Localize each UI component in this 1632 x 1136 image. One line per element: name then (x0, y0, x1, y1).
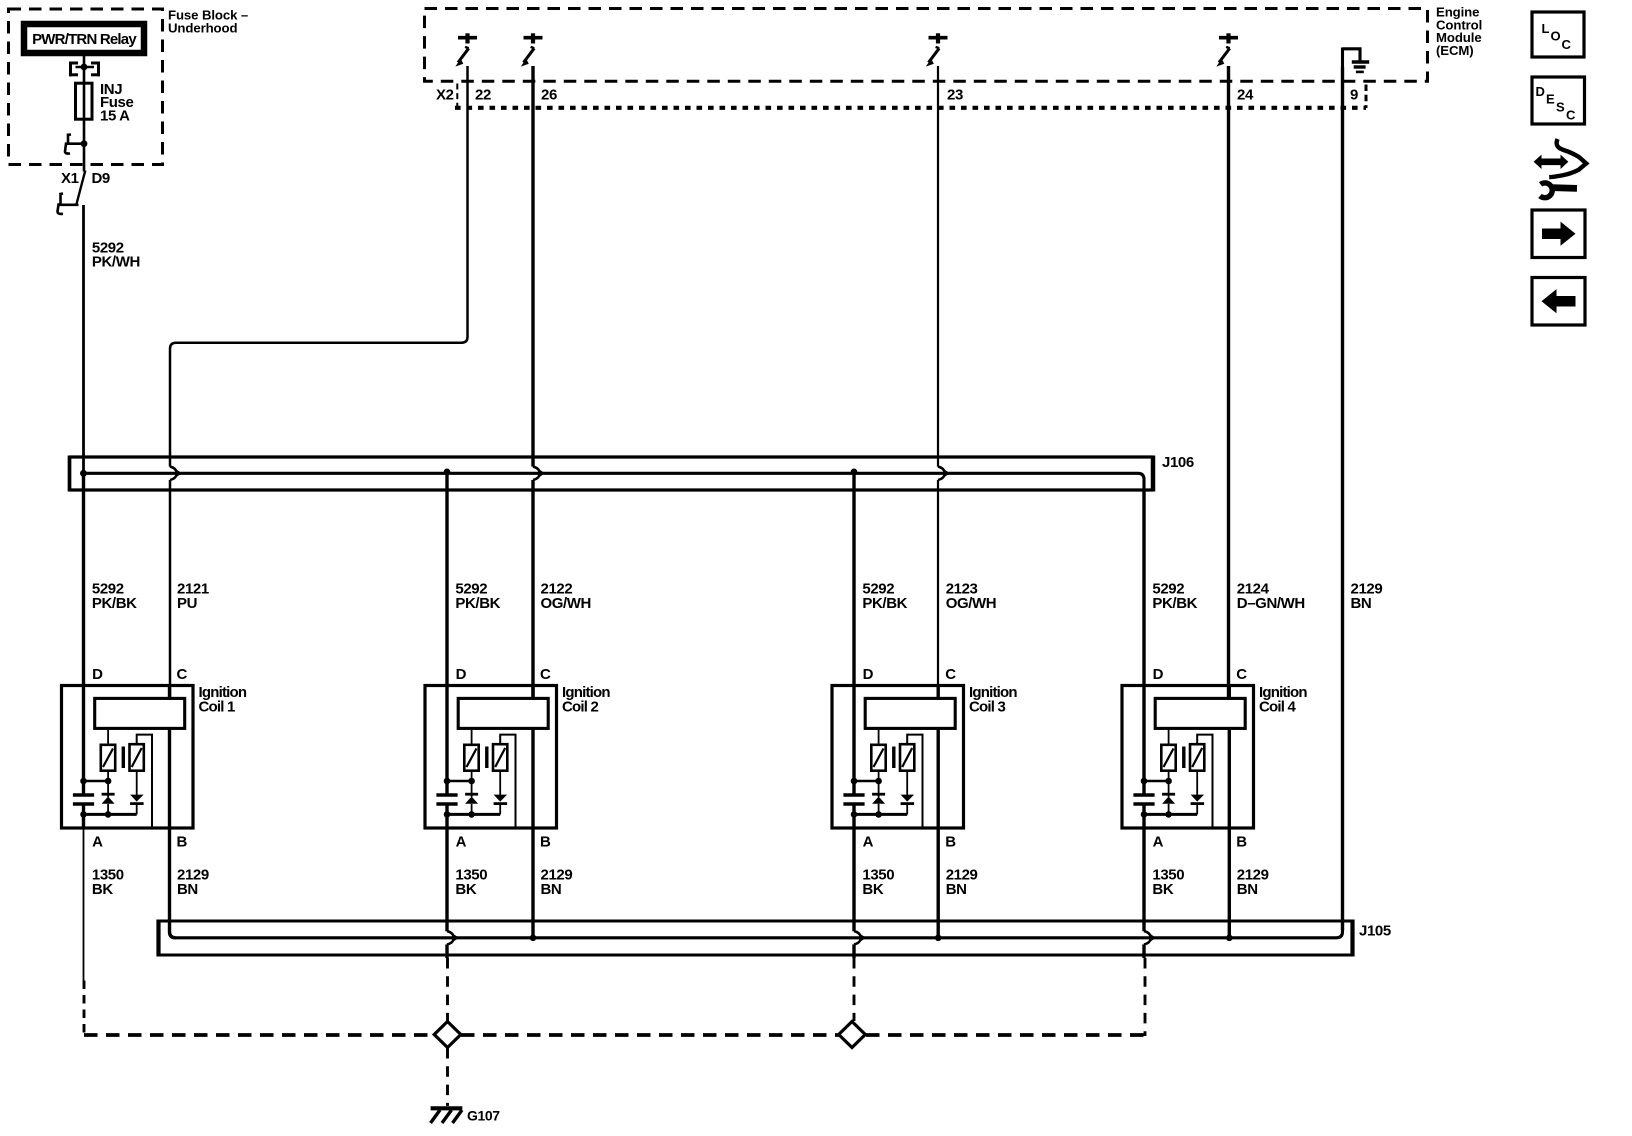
svg-text:D: D (863, 666, 874, 683)
ECM driver (switch) pin 23 (926, 33, 948, 66)
ECM driver (switch) pin 24 (1216, 33, 1238, 66)
wire 1350 BK coil 3 A to J105 (852, 829, 855, 958)
ECM connector row: pin 9 separator (1365, 85, 1368, 109)
svg-text:PU: PU (177, 595, 197, 612)
relay K (PWR/TRN Relay) (24, 24, 144, 53)
coil 2 pin B label (540, 833, 551, 850)
coil 2 resistor 2 (493, 735, 516, 827)
svg-text:BN: BN (1237, 881, 1258, 898)
coil 1 resistor 1 (101, 728, 115, 770)
dashed ground bus horizontal 3 (866, 1033, 1145, 1037)
coil 2 pin A label (456, 833, 467, 850)
toolbar next (right arrow) button (1532, 210, 1585, 258)
J105 pass-through arrow at coil4 A (1144, 931, 1156, 945)
coil 3 D-A internal wire (852, 685, 855, 794)
svg-text:Underhood: Underhood (168, 20, 237, 35)
dashed ground wire coil1 A down (83, 981, 86, 1036)
J105 splice dot coil3 B (935, 935, 942, 942)
coil 1 pin D label (92, 666, 103, 683)
connector X1 D9 pass-through (58, 171, 86, 214)
svg-text:E: E (1546, 92, 1555, 107)
J106 internal bus wire (84, 473, 1145, 491)
coil 4 zener diode (up) (1162, 771, 1175, 815)
svg-text:Coil 3: Coil 3 (969, 698, 1005, 715)
svg-text:PK/BK: PK/BK (1152, 595, 1197, 612)
label Ignition Coil 3 (969, 684, 1017, 716)
svg-text:J106: J106 (1162, 454, 1194, 471)
svg-text:BK: BK (455, 881, 476, 898)
coil 3 junction wire (851, 778, 882, 785)
svg-text:OG/WH: OG/WH (946, 595, 997, 612)
J105 splice dot coil2 B (530, 935, 537, 942)
svg-text:Coil 4: Coil 4 (1259, 698, 1296, 715)
coil 4 D-A internal wire (1142, 685, 1145, 794)
coil 1 primary winding (95, 698, 185, 728)
ignition coil 1 box (62, 686, 194, 829)
svg-text:PK/WH: PK/WH (92, 253, 140, 270)
ECM connector row: X2 separator (456, 84, 458, 108)
ECM driver (switch) pin 22 (455, 33, 477, 66)
svg-text:D: D (1536, 84, 1545, 99)
coil 4 pin B label (1236, 833, 1247, 850)
wire to connector X1 D9 (83, 144, 86, 172)
engine control module dashed box (425, 9, 1428, 82)
wire labels 1350 BK / 2129 BN coil 3 (862, 866, 977, 898)
svg-text:A: A (92, 833, 103, 850)
J105 pass-through arrow at coil2 A (447, 931, 459, 945)
wire terminal to fuse (83, 67, 86, 84)
wire labels 5292 PK/BK / 2124 D–GN/WH coil 4 (1152, 581, 1304, 612)
coil 2 bottom rail (444, 811, 501, 818)
svg-text:D–GN/WH: D–GN/WH (1237, 595, 1305, 612)
dashed wire J105 coil4A down (1144, 958, 1147, 1036)
coil 3 zener diode (up) (872, 771, 885, 815)
svg-text:22: 22 (475, 86, 491, 103)
coil 3 primary winding (865, 698, 955, 728)
J106 pass-through arrow at 2121 wire (170, 467, 182, 481)
svg-text:BK: BK (1152, 881, 1173, 898)
coil 1 bottom rail (80, 811, 137, 818)
coil 3 resistor 1 (871, 728, 885, 770)
splice pack J105 outline (159, 920, 1353, 957)
wire labels 1350 BK / 2129 BN coil 2 (455, 866, 572, 898)
coil 2 A internal wire (445, 805, 448, 829)
coil 2 core bar (485, 747, 488, 769)
svg-text:D9: D9 (92, 170, 110, 187)
coil 1 junction wire (80, 778, 111, 785)
coil 3 pin A label (863, 833, 874, 850)
coil 2 resistor 1 (464, 728, 478, 770)
svg-text:9: 9 (1350, 86, 1358, 103)
toolbar tools icon (1534, 139, 1587, 198)
svg-text:L: L (1542, 21, 1550, 36)
coil 3 pin D label (863, 666, 874, 683)
wire fuse to lower terminal (83, 119, 86, 144)
wire 2122 OG/WH: ECM pin 26 to coil 2 C (531, 66, 534, 698)
dashed ground bus horizontal (84, 1033, 445, 1037)
J106 splice dot 5292 (relay feed) (80, 470, 87, 477)
dashed wire diamond S1 to G107 (446, 1048, 449, 1106)
coil 2 B wire from winding (531, 727, 534, 829)
svg-text:D: D (92, 666, 103, 683)
wire 1350 BK coil 1 A (83, 829, 85, 981)
ECM connector dotted line (455, 106, 1366, 110)
coil 3 bottom rail (851, 811, 908, 818)
label INJ Fuse 15 A (100, 81, 133, 125)
svg-text:C: C (540, 666, 551, 683)
svg-text:C: C (177, 666, 188, 683)
coil 4 capacitor (1133, 795, 1154, 804)
wire 2129 BN coil 1 B to J105 (170, 829, 176, 938)
wire 5292 PK/BK J106 to coil 3 D (852, 473, 855, 686)
coil 2 capacitor (436, 795, 457, 804)
splice diamond S1 (434, 1022, 461, 1048)
J105 splice dot coil4 B (1226, 935, 1233, 942)
coil 1 A internal wire (82, 805, 85, 829)
svg-text:BK: BK (92, 881, 113, 898)
svg-text:O: O (1551, 29, 1561, 44)
coil 4 B wire from winding (1228, 727, 1231, 829)
coil 3 B wire from winding (937, 727, 940, 829)
coil 3 resistor 2 (900, 735, 923, 827)
ground G107 (431, 1108, 463, 1123)
svg-text:B: B (945, 833, 956, 850)
wire 2121 PU: ECM pin 22 jog to coil 1 C (170, 66, 468, 698)
wire labels 5292 PK/BK / 2121 PU coil 1 (92, 581, 209, 612)
coil 2 primary winding (458, 698, 548, 728)
coil 1 capacitor (73, 795, 94, 804)
coil 1 pin A label (92, 833, 103, 850)
relay output terminal brackets (69, 62, 100, 77)
svg-text:BN: BN (541, 881, 562, 898)
J106 splice dot coil 2 D feed (444, 469, 451, 476)
svg-text:A: A (1153, 833, 1164, 850)
wire 2124 D-GN/WH: ECM pin 24 to coil 4 C (1227, 66, 1230, 698)
coil 4 pin A label (1153, 833, 1164, 850)
coil 1 resistor 2 (130, 735, 153, 827)
svg-text:A: A (456, 833, 467, 850)
coil 4 pin D label (1153, 666, 1164, 683)
svg-text:BK: BK (862, 881, 883, 898)
coil 4 pin C label (1236, 666, 1247, 683)
coil 2 diode (down) (494, 771, 508, 815)
coil 3 core bar (892, 747, 895, 769)
toolbar LOC button (1532, 12, 1584, 57)
coil 1 pin B label (177, 833, 188, 850)
wire 1350 BK coil 4 A to J105 (1142, 829, 1145, 958)
wire labels 5292 PK/BK / 2123 OG/WH coil 3 (862, 581, 996, 612)
coil 2 D-A internal wire (445, 685, 448, 794)
label Ignition Coil 1 (199, 684, 247, 716)
svg-text:B: B (177, 833, 188, 850)
label G107 (467, 1108, 500, 1124)
ECM internal ground pin 9 (1343, 48, 1370, 72)
coil 3 diode (down) (901, 771, 915, 815)
label Engine Control Module (ECM) (1436, 5, 1482, 58)
coil 4 C wire into winding (1228, 685, 1231, 700)
dashed ground bus horizontal 2 (461, 1033, 850, 1037)
label 5292 PK/WH (92, 239, 140, 270)
wire 2129 BN: ECM pin 9 to J105 (1341, 67, 1344, 930)
wire 2123 OG/WH: ECM pin 23 to coil 3 C (937, 66, 939, 698)
wire 2129 BN coil 3 B to J105 (937, 829, 940, 937)
wire 5292 PK/WH relay to J106 (82, 205, 85, 474)
svg-text:B: B (1236, 833, 1247, 850)
svg-text:J105: J105 (1359, 923, 1391, 940)
J105 pass-through arrow at coil3 A (854, 931, 866, 945)
wire 5292 PK/BK J106 to coil 1 D (82, 474, 85, 686)
coil 2 pin D label (456, 666, 467, 683)
label J105 (1359, 923, 1391, 940)
coil 2 pin C label (540, 666, 551, 683)
svg-text:C: C (945, 666, 956, 683)
svg-text:X1: X1 (61, 170, 79, 187)
coil 3 capacitor (843, 795, 864, 804)
svg-text:Coil 1: Coil 1 (199, 698, 235, 715)
svg-text:PK/BK: PK/BK (862, 595, 907, 612)
svg-text:Coil 2: Coil 2 (562, 698, 598, 715)
ignition coil 2 box (425, 686, 557, 829)
coil 4 A internal wire (1142, 805, 1145, 829)
svg-text:G107: G107 (467, 1108, 500, 1124)
wire relay to terminal (83, 53, 86, 67)
coil 4 diode (down) (1191, 771, 1205, 815)
ECM driver (switch) pin 26 (521, 33, 543, 66)
pin labels X2 22 26 23 24 9 (436, 86, 1358, 103)
svg-text:PWR/TRN Relay: PWR/TRN Relay (32, 31, 137, 48)
svg-text:BN: BN (177, 881, 198, 898)
wire 5292 PK/BK J106 to coil 2 D (445, 473, 448, 686)
svg-text:OG/WH: OG/WH (541, 595, 592, 612)
svg-text:BN: BN (1351, 595, 1372, 612)
svg-text:D: D (456, 666, 467, 683)
fuse block lower terminal hook (65, 135, 87, 154)
svg-text:PK/BK: PK/BK (92, 595, 137, 612)
svg-text:PK/BK: PK/BK (455, 595, 500, 612)
coil 1 C wire into winding (168, 685, 171, 700)
dashed wire J105 coil2A to diamond (446, 958, 449, 1021)
svg-text:C: C (1566, 108, 1576, 123)
coil 3 pin C label (945, 666, 956, 683)
coil 1 B wire from winding (168, 727, 171, 829)
coil 4 core bar (1182, 747, 1185, 769)
label 2129 BN (pin 9 wire) (1351, 581, 1383, 612)
svg-text:(ECM): (ECM) (1436, 43, 1474, 58)
J106 splice dot coil 3 D feed (851, 469, 858, 476)
J106 pass-through arrow at 2123 wire (938, 467, 950, 481)
coil 2 zener diode (up) (465, 771, 478, 815)
splice pack J106 outline (70, 456, 1154, 492)
wire 2129 BN coil 4 B to J105 (1228, 829, 1231, 937)
coil 3 C wire into winding (937, 685, 940, 700)
coil 1 diode (down) (130, 771, 144, 815)
svg-text:24: 24 (1237, 86, 1254, 103)
coil 3 pin B label (945, 833, 956, 850)
coil 1 pin C label (177, 666, 188, 683)
label J106 (1162, 454, 1194, 471)
svg-text:C: C (1236, 666, 1247, 683)
coil 3 A internal wire (852, 805, 855, 829)
label X1 / D9 (61, 170, 110, 187)
ignition coil 3 box (832, 686, 964, 829)
fuse F INJ 15A (76, 83, 93, 119)
toolbar DESC button (1532, 77, 1585, 124)
coil 2 junction wire (444, 778, 475, 785)
wire labels 1350 BK / 2129 BN coil 1 (92, 866, 209, 898)
coil 1 zener diode (up) (102, 771, 115, 815)
coil 1 core bar (122, 747, 125, 769)
label Ignition Coil 4 (1259, 684, 1307, 716)
coil 4 junction wire (1141, 778, 1172, 785)
svg-text:A: A (863, 833, 874, 850)
coil 4 bottom rail (1141, 811, 1198, 818)
wire labels 5292 PK/BK / 2122 OG/WH coil 2 (455, 581, 591, 612)
svg-text:C: C (1562, 37, 1572, 52)
wire 5292 PK/BK J106 to coil 4 D (1142, 490, 1145, 686)
coil 4 primary winding (1155, 698, 1245, 728)
J106 pass-through arrow at 2122 wire (533, 467, 545, 481)
fuse block underhood dashed box (9, 9, 163, 165)
wire 2129 BN coil 2 B to J105 (531, 829, 534, 937)
toolbar previous (left arrow) button (1532, 278, 1585, 326)
svg-text:X2: X2 (436, 86, 454, 103)
coil 1 D-A internal wire (82, 685, 85, 794)
wire labels 1350 BK / 2129 BN coil 4 (1152, 866, 1268, 898)
dashed wire J105 coil3A to diamond (853, 958, 856, 1021)
wire 1350 BK coil 2 A to J105 (445, 829, 448, 958)
svg-text:S: S (1556, 100, 1565, 115)
label Ignition Coil 2 (562, 684, 610, 716)
coil 4 resistor 2 (1190, 735, 1213, 827)
svg-text:23: 23 (947, 86, 963, 103)
svg-text:26: 26 (541, 86, 557, 103)
ignition coil 4 box (1122, 686, 1254, 829)
label Fuse Block Underhood (168, 8, 248, 36)
svg-text:15 A: 15 A (100, 108, 130, 125)
svg-text:BN: BN (946, 881, 967, 898)
splice diamond S2 (839, 1022, 866, 1048)
J105 internal bus wire (175, 928, 1343, 938)
svg-text:B: B (540, 833, 551, 850)
coil 2 C wire into winding (531, 685, 534, 700)
svg-text:D: D (1153, 666, 1164, 683)
coil 4 resistor 1 (1161, 728, 1175, 770)
